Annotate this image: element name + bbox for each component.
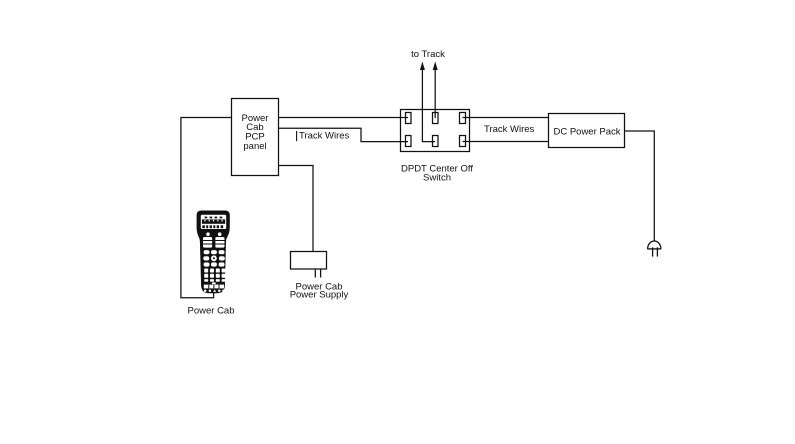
wire: DPDT bottom-center terminal up to track (left arrow) — [422, 69, 435, 142]
arrowhead right — [433, 62, 438, 71]
DPDT terminal bottom-left — [406, 136, 412, 147]
svg-text:to Track: to Track — [411, 49, 445, 60]
throttle screen — [200, 214, 226, 229]
AC plug — [647, 241, 661, 257]
keypad grid row 1 — [204, 269, 225, 273]
svg-text:DC Power Pack: DC Power Pack — [553, 127, 620, 138]
screen main bar — [202, 219, 225, 223]
keypad row A — [204, 250, 225, 254]
wire: PCP panel to Power Cab power supply — [279, 166, 314, 252]
DPDT terminal top-left — [406, 113, 412, 124]
wire: DPDT top-center terminal up to track (right arrow) — [434, 69, 436, 119]
wire: DPDT bottom-right terminal to DC Power Pack — [463, 141, 549, 143]
wire: PCP panel to DPDT top-left terminal — [279, 117, 409, 119]
svg-text:Track Wires: Track Wires — [299, 130, 350, 141]
wire: DC Power Pack to AC plug — [625, 131, 655, 241]
wire: PCP panel to DPDT bottom-left terminal — [279, 128, 409, 141]
Power Cab throttle (handheld) — [197, 211, 230, 294]
keypad row C — [204, 262, 225, 266]
screen dashes row — [205, 217, 223, 219]
wire: PCP panel left side down to Power Cab throttle — [181, 118, 232, 298]
Power Cab power supply box — [291, 252, 327, 270]
DPDT terminal bottom-right — [460, 136, 466, 147]
throttle body — [197, 211, 230, 294]
DPDT switch body — [401, 110, 470, 152]
power supply plug prongs — [315, 269, 320, 278]
keypad grid row 3 — [204, 279, 225, 282]
Power Cab PCP panel label — [242, 113, 269, 152]
knob dots — [206, 232, 210, 236]
Power Cab PCP panel box — [232, 99, 279, 176]
bottom dot row — [204, 290, 207, 293]
arrowhead left — [420, 62, 425, 71]
svg-text:Switch: Switch — [423, 173, 451, 184]
DPDT terminal bottom-center — [433, 136, 439, 147]
svg-text:Power Cab: Power Cab — [188, 306, 235, 317]
DPDT terminal top-center — [433, 113, 439, 124]
keypad grid row 2 — [204, 274, 225, 278]
DC Power Pack box — [549, 114, 625, 148]
svg-text:Power Supply: Power Supply — [290, 290, 349, 301]
keypad row B with center knob — [203, 256, 209, 260]
large rocker buttons — [203, 237, 212, 248]
Track Wires label tick (left) — [296, 131, 298, 141]
svg-text:panel: panel — [243, 141, 266, 152]
screen text row — [202, 225, 223, 228]
wire: DPDT top-right terminal to DC Power Pack — [463, 117, 549, 119]
svg-text:Track Wires: Track Wires — [484, 124, 535, 135]
DPDT terminal top-right — [460, 113, 466, 124]
bottom wide bar — [204, 285, 224, 289]
